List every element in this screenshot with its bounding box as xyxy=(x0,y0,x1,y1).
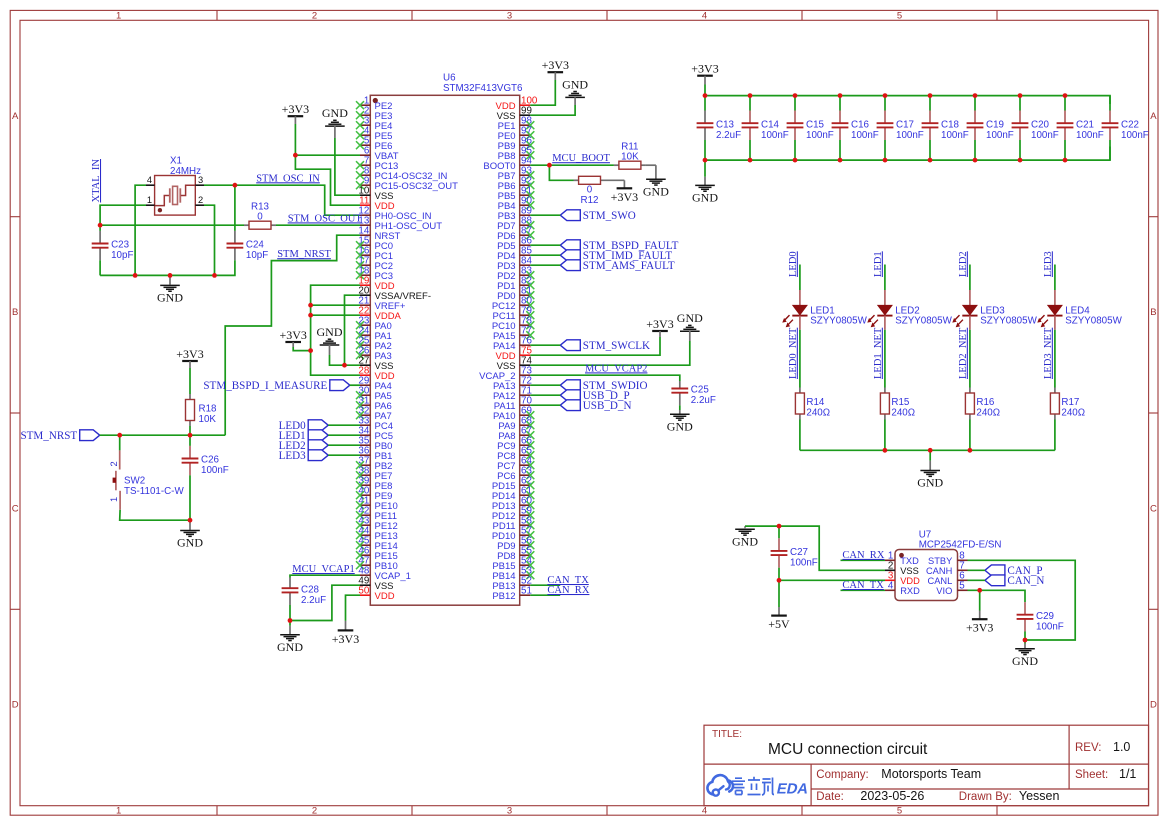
svg-text:A: A xyxy=(1150,111,1157,122)
capacitor C14 100nF xyxy=(742,96,789,161)
svg-text:SZYY0805W: SZYY0805W xyxy=(810,316,867,327)
svg-text:CAN_TX: CAN_TX xyxy=(842,580,884,591)
switch SW2 TS-1101-C-W xyxy=(109,435,184,510)
junction xyxy=(973,158,978,163)
svg-text:5: 5 xyxy=(959,581,965,592)
svg-text:10pF: 10pF xyxy=(246,250,268,261)
wire +3V3 tap to VDD rail xyxy=(293,347,310,351)
wire LED1 cathode to R14 xyxy=(799,330,801,388)
svg-text:C23: C23 xyxy=(111,240,130,251)
svg-text:240Ω: 240Ω xyxy=(1061,408,1085,419)
svg-text:240Ω: 240Ω xyxy=(806,408,830,419)
junction xyxy=(233,183,238,188)
wire R18 to rail xyxy=(189,426,191,435)
svg-text:B: B xyxy=(12,307,18,318)
junction xyxy=(188,518,193,523)
svg-text:LED0_NET: LED0_NET xyxy=(788,327,799,379)
svg-text:LED1: LED1 xyxy=(810,305,835,316)
svg-text:3: 3 xyxy=(507,806,512,817)
svg-text:CAN_N: CAN_N xyxy=(1007,575,1044,587)
capacitor C19 100nF xyxy=(967,96,1014,161)
svg-text:GND: GND xyxy=(917,476,943,490)
wire CAN_TX to U7 RXD xyxy=(841,589,886,591)
svg-text:C21: C21 xyxy=(1076,119,1094,130)
svg-text:R16: R16 xyxy=(976,397,995,408)
ground GND (C28) xyxy=(277,621,303,654)
wire R11 to GND xyxy=(646,164,656,166)
svg-text:GND: GND xyxy=(562,77,588,91)
svg-text:C22: C22 xyxy=(1121,119,1139,130)
ground GND (LED rail) xyxy=(917,450,943,489)
junction xyxy=(1023,638,1028,643)
wire LED0 net to LED1 anode xyxy=(799,265,801,306)
svg-text:100nF: 100nF xyxy=(896,130,924,141)
power +3V3 (VBAT/VDD rail) xyxy=(282,102,309,124)
wire R14 to GND rail xyxy=(799,420,801,451)
svg-text:C: C xyxy=(1150,503,1157,514)
svg-text:STM32F413VGT6: STM32F413VGT6 xyxy=(443,83,523,94)
port STM_AMS_FAULT xyxy=(560,260,675,272)
svg-text:240Ω: 240Ω xyxy=(891,408,915,419)
power +3V3 (pin50) xyxy=(332,621,359,646)
junction xyxy=(342,363,347,368)
svg-text:CANL: CANL xyxy=(927,576,952,586)
svg-text:GND: GND xyxy=(1012,654,1038,668)
svg-text:R15: R15 xyxy=(891,397,910,408)
resistor R13 0 xyxy=(244,202,276,230)
wire U7 VSS to GND xyxy=(745,526,885,570)
svg-text:CAN_RX: CAN_RX xyxy=(842,550,884,561)
svg-text:3: 3 xyxy=(507,11,512,22)
svg-text:2.2uF: 2.2uF xyxy=(716,130,741,141)
wire pin76 to STM_SWCLK xyxy=(530,344,560,346)
title block xyxy=(704,725,1149,806)
svg-text:100nF: 100nF xyxy=(806,130,834,141)
wire +3V3 rail to GND symbol stub xyxy=(704,96,706,111)
junction xyxy=(308,303,313,308)
svg-text:C26: C26 xyxy=(201,455,220,466)
wire U7 CANH to CAN_P xyxy=(968,569,985,571)
svg-text:TXD: TXD xyxy=(900,556,919,566)
junction xyxy=(308,348,313,353)
svg-text:100nF: 100nF xyxy=(1121,130,1149,141)
port STM_IMD_FAULT xyxy=(560,250,672,262)
wire STM_NRST rail xyxy=(100,434,226,436)
svg-text:STM_NRST: STM_NRST xyxy=(20,430,77,442)
resistor R17 240 xyxy=(1050,388,1085,420)
capacitor C20 100nF xyxy=(1012,96,1059,161)
svg-text:3: 3 xyxy=(198,175,203,185)
svg-text:100nF: 100nF xyxy=(1036,621,1064,632)
wire pin94 BOOT0 to R11 xyxy=(530,164,614,166)
wire pin89 to STM_SWO xyxy=(530,214,560,216)
svg-text:+3V3: +3V3 xyxy=(279,328,306,342)
svg-text:GND: GND xyxy=(732,535,758,549)
junction xyxy=(838,158,843,163)
ground GND (crystal) xyxy=(157,275,183,304)
svg-text:1/1: 1/1 xyxy=(1119,767,1136,781)
wire to USB_D_N xyxy=(530,404,560,406)
wire U7 VDD to +5V xyxy=(779,579,885,581)
wire crystal pin1 to C23 node xyxy=(100,205,146,225)
ground GND (C29) xyxy=(1012,640,1038,668)
svg-text:CANH: CANH xyxy=(926,566,952,576)
svg-text:PB12: PB12 xyxy=(492,591,515,602)
port USB_D_N xyxy=(560,400,631,412)
wire C26 to GND node xyxy=(189,480,191,521)
capacitor C18 100nF xyxy=(922,96,969,161)
logo JLC EDA xyxy=(707,775,810,797)
junction xyxy=(288,618,293,623)
ground GND (cap bank) xyxy=(692,160,718,205)
wire crystal pin2 to GND rail xyxy=(204,205,215,275)
svg-text:C19: C19 xyxy=(986,119,1004,130)
wire U7 VIO to C29/+3V3 xyxy=(968,590,1026,594)
wire +3V3 to pin75 VDD xyxy=(530,337,660,355)
svg-text:C28: C28 xyxy=(301,584,320,595)
wire R13 to MCU pin13 xyxy=(276,224,360,226)
svg-text:MCU_VCAP1: MCU_VCAP1 xyxy=(292,564,354,575)
svg-text:100nF: 100nF xyxy=(1076,130,1104,141)
junction xyxy=(703,158,708,163)
svg-text:GND: GND xyxy=(667,420,693,434)
svg-text:0: 0 xyxy=(587,184,593,195)
wire LED3 to pin36 xyxy=(328,454,360,456)
svg-text:2: 2 xyxy=(312,806,317,817)
wire STM_NRST to MCU pin14 xyxy=(225,235,360,435)
svg-text:GND: GND xyxy=(643,184,669,198)
wire pin49 VSS to GND node xyxy=(290,585,360,620)
svg-text:+3V3: +3V3 xyxy=(542,58,569,72)
wire VSSA pins 20/27 rail xyxy=(345,295,361,365)
svg-text:LED3: LED3 xyxy=(1043,251,1054,277)
svg-text:100nF: 100nF xyxy=(941,130,969,141)
svg-text:USB_D_N: USB_D_N xyxy=(583,400,632,412)
power +3V3 (R12) xyxy=(611,180,638,204)
capacitor C16 100nF xyxy=(832,96,879,161)
wire LED1 to pin34 xyxy=(328,434,360,436)
junction xyxy=(117,433,122,438)
wire GND to pin10 VSS xyxy=(335,138,360,195)
svg-text:1: 1 xyxy=(116,806,121,817)
capacitor C13 2.2uF xyxy=(697,111,741,161)
svg-text:1: 1 xyxy=(109,497,119,502)
power +3V3 (cap bank) xyxy=(691,62,718,85)
svg-text:Drawn By:: Drawn By: xyxy=(959,791,1012,803)
svg-text:RXD: RXD xyxy=(900,586,920,596)
wire MCU_VCAP1: pin48 to C28 xyxy=(290,575,360,577)
svg-text:LED2: LED2 xyxy=(895,305,920,316)
svg-text:VDD: VDD xyxy=(900,576,920,586)
svg-text:2: 2 xyxy=(312,11,317,22)
junction xyxy=(883,448,888,453)
svg-text:+5V: +5V xyxy=(768,617,790,631)
LED LED4 SZYY0805W xyxy=(1038,305,1123,330)
svg-text:C27: C27 xyxy=(790,547,808,558)
resistor R12 0 xyxy=(574,176,625,206)
junction xyxy=(793,93,798,98)
svg-text:STM_OSC_OUT: STM_OSC_OUT xyxy=(288,213,363,224)
svg-text:C: C xyxy=(12,503,19,514)
svg-text:1.0: 1.0 xyxy=(1113,740,1130,754)
svg-text:Company:: Company: xyxy=(816,769,868,781)
svg-text:LED3: LED3 xyxy=(279,450,307,462)
svg-text:Sheet:: Sheet: xyxy=(1075,769,1108,781)
svg-text:D: D xyxy=(12,700,19,711)
svg-text:EDA: EDA xyxy=(775,781,810,798)
svg-text:LED3_NET: LED3_NET xyxy=(1043,327,1054,379)
wire cap bank GND rail xyxy=(705,147,1110,161)
svg-text:SW2: SW2 xyxy=(124,475,145,486)
port CAN_P xyxy=(985,565,1043,577)
port LED0 xyxy=(279,420,329,432)
wire port to pin29 xyxy=(350,384,360,386)
svg-text:LED3: LED3 xyxy=(980,305,1005,316)
svg-text:C29: C29 xyxy=(1036,611,1054,622)
junction xyxy=(928,158,933,163)
wire U7 STBY to GND node xyxy=(968,560,1076,640)
wire crystal pin4 to GND rail xyxy=(135,185,146,275)
resistor R16 240 xyxy=(965,388,1000,420)
svg-text:R17: R17 xyxy=(1061,397,1079,408)
svg-text:2.2uF: 2.2uF xyxy=(301,595,326,606)
svg-text:C16: C16 xyxy=(851,119,870,130)
wire GND tap to VSSA rail xyxy=(330,355,345,365)
svg-text:C25: C25 xyxy=(691,385,710,396)
capacitor C23 10pF xyxy=(92,228,134,276)
svg-text:GND: GND xyxy=(177,536,203,550)
port STM_SWDIO xyxy=(560,380,647,392)
junction xyxy=(703,93,708,98)
wire R15 to GND rail xyxy=(884,420,886,451)
svg-text:2023-05-26: 2023-05-26 xyxy=(860,789,924,803)
wire VDD pins 19/21/22/28 rail xyxy=(311,285,360,375)
svg-text:VDD: VDD xyxy=(375,591,395,602)
svg-text:STM_AMS_FAULT: STM_AMS_FAULT xyxy=(583,260,675,272)
svg-text:MCP2542FD-E/SN: MCP2542FD-E/SN xyxy=(919,540,1002,551)
svg-text:C24: C24 xyxy=(246,240,265,251)
svg-text:GND: GND xyxy=(157,291,183,305)
port STM_BSPD_I_MEASURE xyxy=(203,380,349,392)
junction xyxy=(1063,93,1068,98)
power +3V3 (pin100) xyxy=(542,58,569,80)
port STM_BSPD_FAULT xyxy=(560,240,678,252)
svg-text:A: A xyxy=(12,111,19,122)
svg-text:4: 4 xyxy=(702,806,707,817)
junction xyxy=(547,163,552,168)
svg-text:10pF: 10pF xyxy=(111,250,133,261)
port USB_D_P xyxy=(560,390,629,402)
junction xyxy=(973,93,978,98)
ground GND (pin10 VSS) xyxy=(322,106,348,138)
wire to STM_SWDIO xyxy=(530,384,560,386)
ground GND (pin99) xyxy=(562,77,588,105)
wire LED0 to pin33 xyxy=(328,424,360,426)
junction xyxy=(883,158,888,163)
junction xyxy=(1018,158,1023,163)
LED LED2 SZYY0805W xyxy=(868,305,953,330)
svg-text:C15: C15 xyxy=(806,119,825,130)
LED LED1 SZYY0805W xyxy=(783,305,868,330)
capacitor C28 2.2uF xyxy=(282,578,326,621)
svg-text:R12: R12 xyxy=(581,195,599,206)
wire BOOT0 node to R12 xyxy=(549,165,573,180)
svg-text:XTAL_IN: XTAL_IN xyxy=(91,159,102,203)
svg-text:C18: C18 xyxy=(941,119,960,130)
port STM_SWCLK xyxy=(560,340,650,352)
svg-text:Yessen: Yessen xyxy=(1019,789,1060,803)
svg-text:R18: R18 xyxy=(199,404,218,415)
wire U7 CANL to CAN_N xyxy=(968,579,985,581)
wire STM_OSC_IN: crystal pin3 to MCU pin12 xyxy=(204,185,360,215)
wire CAN_TX stub pin52 xyxy=(530,584,560,586)
junction xyxy=(838,93,843,98)
capacitor C21 100nF xyxy=(1057,96,1104,161)
junction xyxy=(212,273,217,278)
svg-text:+3V3: +3V3 xyxy=(611,190,638,204)
junction xyxy=(1063,158,1068,163)
svg-text:Date:: Date: xyxy=(816,791,844,803)
svg-text:LED1: LED1 xyxy=(873,251,884,277)
junction xyxy=(308,313,313,318)
svg-text:2: 2 xyxy=(198,195,203,205)
wire crystal GND rail xyxy=(100,274,235,276)
wire LED2 net to LED3 anode xyxy=(969,265,971,306)
wire LED3 cathode to R16 xyxy=(969,330,971,388)
svg-text:TS-1101-C-W: TS-1101-C-W xyxy=(124,486,184,497)
junction xyxy=(777,578,782,583)
junction xyxy=(1018,93,1023,98)
svg-text:5: 5 xyxy=(897,11,902,22)
svg-text:CAN_RX: CAN_RX xyxy=(547,585,589,596)
svg-text:+3V3: +3V3 xyxy=(646,317,673,331)
svg-text:5: 5 xyxy=(897,806,902,817)
port LED3 xyxy=(279,450,329,462)
wire pin85 to STM_IMD_FAULT xyxy=(530,254,560,256)
svg-text:R14: R14 xyxy=(806,397,825,408)
svg-text:51: 51 xyxy=(521,585,532,596)
junction xyxy=(293,153,298,158)
capacitor C15 100nF xyxy=(787,96,834,161)
wire pin50 VDD to +3V3 xyxy=(346,595,361,621)
junction xyxy=(928,448,933,453)
wire +3V3 to pin6 VBAT and pin11 VDD xyxy=(295,124,360,205)
junction xyxy=(928,93,933,98)
svg-text:GND: GND xyxy=(322,106,348,120)
wire GND to pin99 xyxy=(530,105,575,115)
junction xyxy=(133,273,138,278)
ground GND (R11) xyxy=(643,165,669,198)
CAN transceiver U7 MCP2542FD-E/SN xyxy=(885,529,1001,600)
svg-text:50: 50 xyxy=(358,585,369,596)
svg-text:4: 4 xyxy=(888,581,894,592)
power +5V xyxy=(768,580,790,631)
svg-text:C20: C20 xyxy=(1031,119,1050,130)
svg-text:LED2: LED2 xyxy=(958,251,969,277)
wire pin86 to STM_BSPD_FAULT xyxy=(530,244,560,246)
MCU U6 STM32F413VGT6 xyxy=(356,73,538,606)
junction xyxy=(98,223,103,228)
svg-text:VIO: VIO xyxy=(936,586,952,596)
svg-text:0: 0 xyxy=(257,211,263,222)
svg-text:10K: 10K xyxy=(621,151,639,162)
svg-text:GND: GND xyxy=(317,325,343,339)
wire R17 to GND rail xyxy=(1054,420,1056,451)
svg-text:REV:: REV: xyxy=(1075,742,1101,754)
port STM_NRST xyxy=(20,430,99,442)
svg-text:2: 2 xyxy=(109,461,119,466)
svg-text:STM_SWO: STM_SWO xyxy=(583,210,636,222)
capacitor C24 10pF xyxy=(227,185,269,275)
svg-text:LED1_NET: LED1_NET xyxy=(873,327,884,379)
svg-text:MCU connection circuit: MCU connection circuit xyxy=(768,741,928,758)
wire +3V3 to R18 xyxy=(189,368,191,394)
LED LED3 SZYY0805W xyxy=(953,305,1038,330)
capacitor C17 100nF xyxy=(877,96,924,161)
capacitor C26 100nF xyxy=(182,435,229,479)
svg-text:GND: GND xyxy=(677,311,703,325)
svg-text:1: 1 xyxy=(116,11,121,22)
svg-text:100nF: 100nF xyxy=(790,558,818,569)
svg-text:100nF: 100nF xyxy=(761,130,789,141)
power +3V3 (VDDA rail) xyxy=(279,328,306,347)
wire R16 to GND rail xyxy=(969,420,971,451)
port LED2 xyxy=(279,440,329,452)
junction xyxy=(748,93,753,98)
svg-text:GND: GND xyxy=(277,640,303,654)
ground GND (VSSA rail) xyxy=(317,325,343,355)
wire CAN_RX stub pin51 xyxy=(530,594,560,596)
svg-text:SZYY0805W: SZYY0805W xyxy=(1065,316,1122,327)
port CAN_N xyxy=(985,575,1044,587)
power +3V3 (U7 VIO) xyxy=(966,590,993,634)
svg-text:SZYY0805W: SZYY0805W xyxy=(895,316,952,327)
junction xyxy=(883,93,888,98)
junction xyxy=(793,158,798,163)
svg-text:+3V3: +3V3 xyxy=(332,632,359,646)
svg-text:2.2uF: 2.2uF xyxy=(691,395,716,406)
svg-text:STM_NRST: STM_NRST xyxy=(277,249,331,260)
wire LED3 net to LED4 anode xyxy=(1054,265,1056,306)
svg-text:4: 4 xyxy=(147,175,152,185)
svg-text:SZYY0805W: SZYY0805W xyxy=(980,316,1037,327)
capacitor C25 2.2uF xyxy=(671,381,715,410)
svg-text:10K: 10K xyxy=(199,414,217,425)
junction xyxy=(968,448,973,453)
svg-text:D: D xyxy=(1150,700,1157,711)
svg-text:4: 4 xyxy=(702,11,707,22)
svg-text:STM_OSC_IN: STM_OSC_IN xyxy=(256,173,320,184)
junction xyxy=(777,524,782,529)
resistor R18 10K xyxy=(186,394,218,426)
svg-text:1: 1 xyxy=(147,195,152,205)
power +3V3 (R18) xyxy=(176,347,203,368)
junction xyxy=(748,158,753,163)
svg-text:+3V3: +3V3 xyxy=(282,102,309,116)
ground GND (pin74) xyxy=(677,311,703,341)
svg-text:240Ω: 240Ω xyxy=(976,408,1000,419)
resistor R15 240 xyxy=(880,388,915,420)
svg-text:STBY: STBY xyxy=(928,556,952,566)
wire cap bank +3V3 rail xyxy=(705,85,1110,105)
svg-text:100nF: 100nF xyxy=(1031,130,1059,141)
wire STM_OSC_OUT: node to R13 xyxy=(100,224,244,226)
svg-text:LED2_NET: LED2_NET xyxy=(958,327,969,379)
svg-text:MCU_BOOT: MCU_BOOT xyxy=(552,153,610,164)
capacitor C22 100nF xyxy=(1102,96,1149,161)
capacitor C29 100nF xyxy=(1017,594,1064,640)
svg-text:100nF: 100nF xyxy=(201,465,229,476)
